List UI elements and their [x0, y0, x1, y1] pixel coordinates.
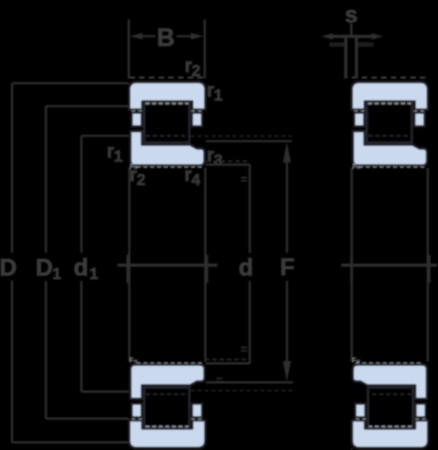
svg-text:F: F: [280, 254, 295, 281]
dimension D1: [46, 106, 129, 418]
svg-text:2: 2: [137, 172, 146, 189]
displacement face lines: [346, 38, 357, 79]
svg-text:w: w: [133, 165, 138, 171]
wire: side face line right between halves: [427, 168, 429, 362]
svg-text:w: w: [133, 358, 138, 364]
hidden bore chamfer dashes upper: [206, 160, 248, 162]
bearing section, lower half (mirrored): [129, 363, 205, 448]
hidden flange edge dashes extending right, lower: [191, 390, 294, 392]
s leader line: [350, 24, 352, 36]
svg-text:1: 1: [114, 149, 123, 166]
svg-text:D: D: [36, 255, 53, 282]
bearing section, lower half (rotated 180): [352, 363, 428, 448]
svg-text:2: 2: [192, 63, 201, 80]
wire: side face line left between halves: [351, 168, 353, 362]
dimension d1: [81, 136, 128, 392]
wire: side face line left between halves: [128, 168, 130, 362]
svg-text:D: D: [0, 255, 17, 282]
svg-text:4: 4: [191, 172, 200, 189]
bearing section, upper half: [129, 82, 205, 167]
dimension D: [12, 83, 129, 442]
svg-text:w: w: [355, 358, 360, 364]
hidden bore chamfer dashes lower: [205, 358, 250, 360]
dashed housing line above right outer ring: [352, 77, 428, 79]
dimension F with arrows: [206, 141, 293, 382]
svg-text:d: d: [74, 255, 89, 282]
tiny mark near d line upper: [241, 178, 247, 181]
tiny mark near d line lower: [241, 348, 247, 351]
bearing section, upper half: [352, 82, 428, 167]
svg-text:w: w: [355, 165, 360, 171]
dashed housing line above left outer ring: [130, 77, 206, 79]
svg-text:d: d: [239, 255, 254, 282]
svg-text:1: 1: [53, 266, 62, 283]
dimension d: [206, 165, 250, 364]
hidden flange edge dashes extending right, upper: [191, 135, 293, 137]
axis centerline left view: [118, 264, 218, 267]
s dimension line with arrows: [328, 35, 377, 38]
dimension B extension lines: [129, 20, 205, 79]
smudge marks under s line: [330, 42, 374, 47]
wire: stub below bottom section: [351, 449, 353, 450]
axis centerline right view: [341, 264, 437, 267]
tiny mark near face line lower: [216, 378, 222, 381]
svg-text:B: B: [157, 24, 175, 52]
wire: side face line right between halves: [204, 168, 206, 362]
svg-text:1: 1: [90, 266, 99, 283]
svg-text:1: 1: [214, 88, 223, 105]
dimension B line with arrows: [140, 35, 194, 37]
